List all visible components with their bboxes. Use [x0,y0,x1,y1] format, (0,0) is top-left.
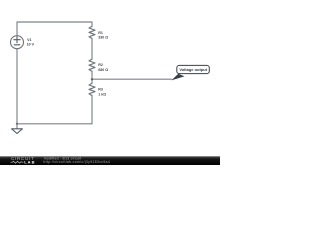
svg-text:10 V: 10 V [27,43,35,47]
svg-text:LAB: LAB [24,159,35,164]
svg-text:R3: R3 [98,88,103,92]
svg-text:Voltage output: Voltage output [179,67,207,72]
svg-text:330 Ω: 330 Ω [98,36,108,40]
svg-text:R1: R1 [98,31,103,35]
svg-text:R2: R2 [98,63,103,67]
svg-text:http://circuitlab.com/c/j3y928: http://circuitlab.com/c/j3y9283xv5a4 [43,160,110,164]
svg-text:1 kΩ: 1 kΩ [98,92,106,96]
svg-text:V1: V1 [27,38,31,42]
svg-text:680 Ω: 680 Ω [98,68,108,72]
